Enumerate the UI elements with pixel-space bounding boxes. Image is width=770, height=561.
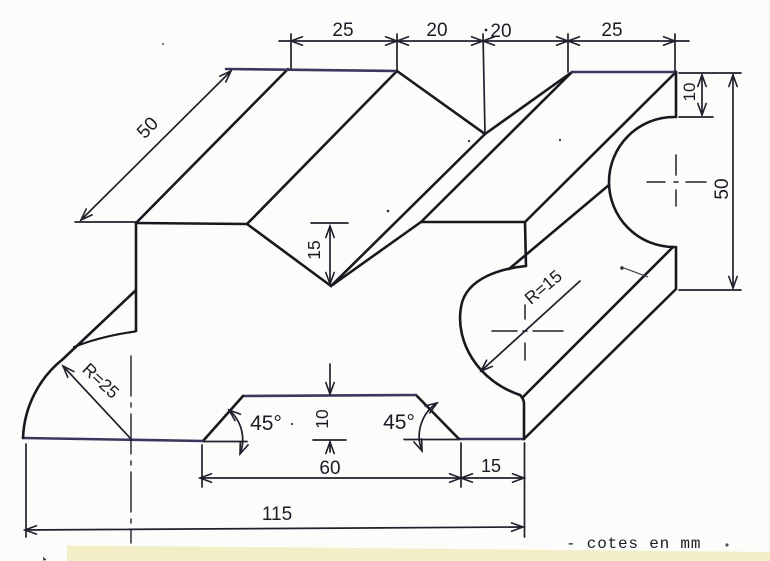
svg-text:20: 20 (490, 21, 511, 42)
15 V-depth dim line (329, 226, 331, 284)
front notch semicircle R15 (460, 266, 526, 395)
top dim extension line x483 to back apex (483, 34, 485, 133)
notch 10 dim line lower (329, 442, 331, 452)
left 45 arc (229, 410, 243, 454)
50 dim ext bottom (679, 289, 741, 291)
faint dot after note (725, 543, 728, 546)
svg-text:15: 15 (304, 240, 324, 259)
front top edge right section (421, 221, 525, 224)
top dim extension line x397 (396, 34, 398, 71)
R25 rounded corner front arc (23, 359, 63, 438)
svg-text:115: 115 (262, 504, 292, 525)
bottom edge left of notch (23, 438, 203, 441)
scan speck dot (387, 210, 390, 213)
top dim overshoot right (675, 40, 689, 42)
V groove right flank front edge (331, 222, 421, 286)
svg-text:15: 15 (481, 456, 501, 476)
svg-text:60: 60 (319, 458, 340, 479)
svg-text:20: 20 (426, 20, 447, 41)
10 dim line (701, 75, 703, 115)
50 dim ext top (713, 72, 741, 74)
svg-text:- cotes en mm: - cotes en mm (566, 535, 701, 553)
front right edge upper (525, 222, 526, 266)
svg-text:50: 50 (712, 178, 733, 199)
back right edge lower (675, 247, 678, 289)
front notch center cross (492, 305, 563, 360)
notch cylinder silhouette line (509, 185, 609, 269)
50 dim line right (732, 75, 734, 288)
back notch center cross (647, 155, 706, 206)
svg-text:10: 10 (680, 83, 699, 102)
15 dim line bottom (461, 477, 524, 479)
receding bottom-right edge (524, 290, 675, 439)
R15 leader (481, 281, 580, 371)
centerline R25 (130, 356, 132, 543)
svg-text:25: 25 (332, 20, 353, 41)
receding edge from V left-top corner (247, 71, 397, 224)
V groove left flank front edge (247, 224, 331, 286)
bottom edge stub right chamfer (404, 439, 459, 441)
50 slope dim line (81, 71, 231, 220)
scan scratch mark (624, 268, 648, 277)
bottom-left dark speck (43, 557, 47, 561)
R25 corner silhouette line (63, 291, 135, 359)
front top edge left section (136, 223, 247, 224)
back V left flank edge (397, 71, 485, 134)
front right edge lower (520, 395, 524, 439)
top dim extension line x675 (674, 34, 676, 72)
scan speck dot (468, 140, 470, 142)
115 dim ext left (25, 444, 27, 537)
speck near top (162, 43, 164, 45)
dot after 45 left (291, 423, 293, 425)
front left edge (135, 223, 138, 331)
svg-text:45°: 45° (383, 411, 415, 434)
back top edge left section with extension (226, 69, 397, 71)
R25 arc remnant tick (74, 332, 135, 348)
back notch semicircle (609, 117, 674, 247)
back right edge upper 10mm (675, 72, 678, 117)
bottom edge right of notch (459, 438, 524, 441)
dot before second 20 (485, 29, 488, 32)
receding edge from front top-right corner (525, 72, 676, 222)
back top edge right section (572, 71, 676, 74)
notch 10 dim line upper (329, 364, 331, 394)
svg-text:45°: 45° (250, 412, 282, 435)
115 dim line (25, 527, 523, 530)
bottom edge stub left chamfer (204, 441, 247, 443)
receding edge from front top-left corner (136, 69, 288, 223)
10 dim ext bottom (679, 116, 713, 118)
60 dim ext left (201, 445, 203, 487)
receding edge from V right-top corner (421, 72, 572, 222)
svg-text:25: 25 (601, 20, 622, 41)
bottom notch top edge (243, 395, 416, 396)
svg-text:10: 10 (312, 409, 332, 429)
60 dim ext right (460, 443, 462, 487)
left 45 chamfer (203, 396, 243, 441)
top dim extension line x291 (290, 34, 292, 69)
right 45 arc (419, 403, 437, 451)
top dim line 25b (568, 40, 675, 42)
receding edge below notch (strip top) (523, 247, 673, 397)
top dim overshoot left (279, 40, 291, 42)
top dim line 20b (483, 40, 568, 42)
scan speck dot (559, 139, 561, 141)
notch 10 bottom stub (313, 439, 346, 441)
highlight band bottom (67, 546, 770, 561)
10 dim ext top (679, 72, 713, 74)
60 dim line (200, 477, 461, 479)
top dim line 25 (291, 40, 397, 42)
R25 leader (63, 366, 131, 439)
right 45 chamfer (416, 395, 459, 439)
15 V-depth ext tick (311, 222, 348, 224)
top dim line 20 (397, 40, 483, 42)
top dim extension line x568 (567, 34, 569, 72)
15 dim ext right (down to 115) (524, 443, 526, 537)
50 slope dim extension (75, 221, 136, 223)
receding edge from V apex (bowed) (331, 134, 485, 286)
back V right flank edge (485, 72, 572, 134)
